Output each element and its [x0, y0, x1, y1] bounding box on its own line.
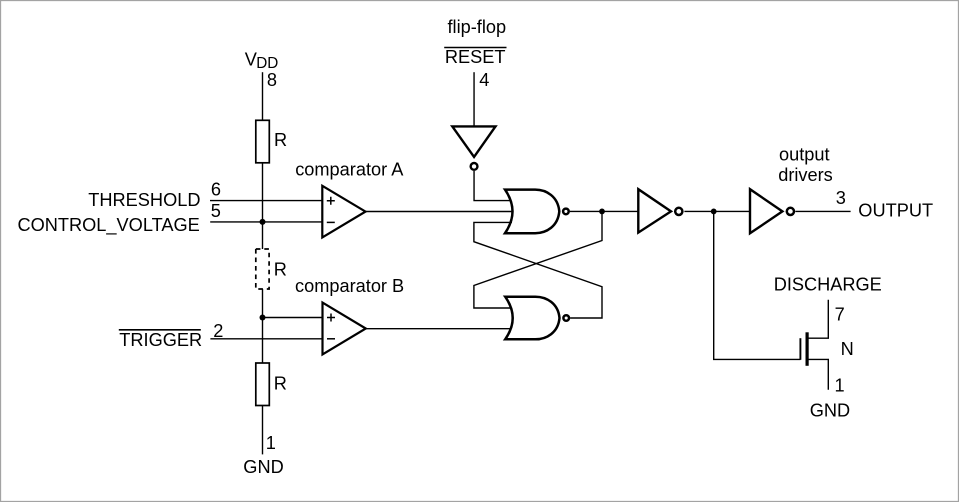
- transistor Q1 (N-MOS): [800, 300, 828, 390]
- junction divider / comparator B: [260, 315, 266, 321]
- junction NOR1 output node: [599, 209, 605, 215]
- svg-text:flip-flop: flip-flop: [447, 17, 506, 37]
- svg-text:output: output: [779, 144, 830, 164]
- svg-text:R: R: [274, 130, 287, 150]
- node VDD label: [245, 49, 279, 72]
- pin 4: [479, 70, 489, 90]
- resistor R3: [256, 363, 269, 406]
- svg-text:drivers: drivers: [778, 165, 833, 185]
- wire U3 out to U4: [684, 210, 750, 212]
- svg-text:1: 1: [835, 375, 845, 395]
- wire R1 to R2: [262, 163, 264, 249]
- inverter U4 (output driver): [750, 144, 833, 233]
- wire feedback NOR1 out to NOR2 top input (cross): [474, 211, 602, 308]
- wire CONTROL_VOLTAGE to comparator A -: [210, 221, 324, 223]
- wire R3 to GND: [262, 406, 264, 455]
- node CONTROL_VOLTAGE label: [18, 215, 200, 236]
- value label R2: [274, 259, 287, 279]
- wire divider to comparator B +: [263, 317, 325, 319]
- svg-text:GND: GND: [810, 400, 850, 420]
- NOR gate U1 (top): [505, 190, 569, 234]
- ground GND label: [243, 457, 283, 477]
- svg-text:THRESHOLD: THRESHOLD: [88, 190, 200, 210]
- pin 1 (GND divider): [266, 433, 276, 453]
- svg-text:3: 3: [836, 188, 846, 208]
- pin 2: [213, 321, 223, 341]
- svg-text:6: 6: [211, 180, 221, 200]
- node DISCHARGE label: [774, 275, 882, 295]
- svg-text:comparator A: comparator A: [295, 160, 404, 180]
- wire TRIGGER to comparator B -: [210, 338, 324, 340]
- value label R1: [274, 130, 287, 150]
- pin 7: [835, 304, 845, 324]
- svg-text:R: R: [274, 373, 287, 393]
- inverter U5 (reset, pointing down): [452, 126, 495, 169]
- wire R2 to R3: [262, 289, 264, 363]
- value label R3: [274, 373, 287, 393]
- junction output node to discharge: [711, 209, 717, 215]
- svg-text:N: N: [841, 339, 854, 359]
- svg-text:7: 7: [835, 304, 845, 324]
- pin 8: [267, 70, 277, 90]
- svg-text:comparator B: comparator B: [295, 276, 404, 296]
- NOR gate U2 (bottom): [505, 297, 569, 340]
- wire feedback NOR2 out to NOR1 bottom input (cross): [474, 222, 602, 318]
- wire NOR1 out to inverter U3: [570, 210, 639, 212]
- pin 3: [836, 188, 846, 208]
- svg-text:OUTPUT: OUTPUT: [858, 200, 933, 220]
- pin 6: [211, 180, 221, 200]
- svg-text:TRIGGER: TRIGGER: [119, 330, 202, 350]
- svg-text:CONTROL_VOLTAGE: CONTROL_VOLTAGE: [18, 215, 200, 236]
- svg-text:RESET: RESET: [445, 47, 506, 67]
- svg-text:4: 4: [479, 70, 489, 90]
- resistor R2 (dashed): [256, 249, 269, 289]
- node THRESHOLD label: [88, 190, 200, 210]
- resistor R1: [256, 120, 269, 163]
- wire VDD to R1: [262, 72, 264, 120]
- pin 1 (transistor source): [835, 375, 845, 395]
- wire comparator A out to NOR1: [366, 211, 513, 213]
- node flip-flop RESET label: [444, 17, 506, 67]
- svg-text:5: 5: [211, 201, 221, 221]
- svg-text:DISCHARGE: DISCHARGE: [774, 275, 882, 295]
- junction control voltage / divider: [260, 219, 266, 225]
- wire THRESHOLD to comparator A +: [210, 200, 324, 202]
- svg-text:8: 8: [267, 70, 277, 90]
- wire RESET to inverter U5: [473, 72, 475, 126]
- inverter U3: [638, 189, 682, 232]
- op-amp comparator A: [295, 160, 404, 238]
- node OUTPUT label: [858, 200, 933, 220]
- wire output node to transistor gate: [714, 211, 801, 359]
- wire U5 out to NOR1 top input: [474, 171, 512, 201]
- value label N: [841, 339, 854, 359]
- op-amp comparator B: [295, 276, 404, 354]
- svg-text:GND: GND: [243, 457, 283, 477]
- wire comparator B out to NOR2: [366, 328, 512, 330]
- ground GND label (transistor): [810, 400, 850, 420]
- pin 5: [211, 201, 221, 221]
- svg-text:R: R: [274, 259, 287, 279]
- wire U4 out to OUTPUT: [795, 210, 850, 212]
- svg-text:1: 1: [266, 433, 276, 453]
- svg-text:2: 2: [213, 321, 223, 341]
- node TRIGGER label (with overline): [119, 330, 202, 350]
